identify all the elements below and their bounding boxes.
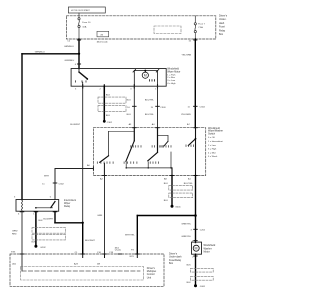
- svg-text:Fuse 10: Fuse 10: [82, 22, 91, 24]
- switch internals: column 3 (A4 high): [148, 128, 158, 161]
- svg-text:BLK: BLK: [164, 183, 169, 185]
- park switch inside motor box: [76, 69, 88, 87]
- windshield washer motor: [192, 242, 202, 254]
- relay bottom ticks + labels: [20, 211, 57, 213]
- svg-text:BLU/WHT: BLU/WHT: [85, 240, 96, 242]
- svg-text:Motor: Motor: [204, 250, 210, 253]
- svg-text:G202: G202: [40, 247, 46, 249]
- svg-text:C304: C304: [200, 107, 206, 109]
- fuse F7: [194, 16, 196, 39]
- svg-text:Driver's: Driver's: [219, 15, 228, 18]
- connector 15 tick (fuse 7 output): [194, 39, 197, 41]
- svg-text:4 = Mist: 4 = Mist: [208, 151, 216, 154]
- pin 4 tick: [77, 63, 80, 65]
- wire BLK from A8 to G401: [171, 176, 173, 206]
- fuse F10: [78, 13, 80, 39]
- bottom pin labels/ticks: [103, 175, 198, 177]
- svg-text:BLK: BLK: [106, 115, 111, 117]
- windshield wiper/washer switch box (dashed): [93, 128, 205, 176]
- svg-text:YEL/GRN: YEL/GRN: [181, 114, 191, 116]
- svg-text:Fuse 7: Fuse 7: [198, 23, 205, 25]
- svg-text:BLU/YEL: BLU/YEL: [145, 100, 155, 102]
- branch to P3: [137, 216, 195, 255]
- wire BLK motor pin2 (bold) to splice: [103, 86, 105, 121]
- svg-text:GRN/BLU: GRN/BLU: [65, 60, 75, 62]
- svg-text:RED: RED: [12, 234, 17, 236]
- svg-text:BLK: BLK: [187, 282, 192, 284]
- ground G301: [194, 284, 197, 287]
- svg-text:GRN/YEL: GRN/YEL: [181, 236, 191, 238]
- spare terminal [P] box: [97, 31, 109, 37]
- svg-text:BLU: BLU: [127, 114, 132, 116]
- spare relay (dashed): [154, 26, 181, 34]
- windshield wiper motor box: [71, 69, 166, 87]
- svg-text:BLK: BLK: [32, 242, 37, 244]
- svg-text:BLU/WHT: BLU/WHT: [70, 124, 81, 126]
- svg-text:BLK: BLK: [106, 94, 111, 96]
- wire GRN/RED relay pin6 to E35: [21, 212, 23, 254]
- svg-text:GRN/YEL: GRN/YEL: [181, 224, 191, 226]
- svg-text:G401: G401: [175, 206, 181, 208]
- relay label: [64, 199, 76, 208]
- wire BLU/WHT motor pin5 (thin): [82, 86, 84, 223]
- svg-text:0 = Off: 0 = Off: [208, 137, 215, 139]
- bottom fuse/relay box (dashed): [10, 254, 164, 286]
- wire GRN/BLU from fuse 10: [22, 39, 79, 200]
- svg-text:BLU/YEL: BLU/YEL: [184, 183, 194, 185]
- inner dashed box: [21, 267, 144, 281]
- label: Driver's Multiplex Control Unit: [147, 267, 157, 280]
- svg-text:3 = High: 3 = High: [208, 149, 217, 151]
- svg-text:BLK: BLK: [187, 265, 192, 267]
- svg-text:Relay: Relay: [219, 29, 226, 32]
- switch internals: column 2 (A3 low): [126, 128, 134, 162]
- connector C202 pin 3: [194, 228, 198, 230]
- svg-text:Fuse/: Fuse/: [219, 26, 225, 29]
- splice C302: [103, 120, 106, 123]
- wire BLU/YEL motor pin1: [157, 86, 159, 128]
- ground G401: [171, 205, 174, 208]
- svg-text:YEL/GRN: YEL/GRN: [182, 55, 192, 57]
- ground G202: [34, 245, 37, 248]
- svg-text:(Not Used): (Not Used): [97, 40, 108, 43]
- svg-text:BLK: BLK: [164, 200, 169, 202]
- svg-text:4 = High: 4 = High: [167, 83, 176, 85]
- wire YEL/GRN from fuse 7: [194, 39, 196, 128]
- svg-text:5 = Wash: 5 = Wash: [208, 156, 218, 158]
- motor M inside box: [133, 69, 159, 86]
- label: Driver's Under-dash Fuse/Relay Box (bottom right): [169, 253, 182, 265]
- svg-text:HOT IN ON OR START: HOT IN ON OR START: [71, 9, 91, 12]
- svg-text:C302: C302: [59, 183, 65, 185]
- svg-text:3 = Low: 3 = Low: [167, 80, 175, 82]
- svg-text:C302: C302: [107, 122, 113, 124]
- svg-text:Unit: Unit: [147, 276, 152, 279]
- wire BLU/YEL from A1: [195, 176, 197, 243]
- svg-text:GRN/BLU: GRN/BLU: [64, 46, 74, 48]
- wire BLU motor pin3: [133, 86, 135, 128]
- connector C304: [194, 105, 198, 107]
- internal bus: [22, 270, 140, 272]
- svg-text:C303: C303: [160, 107, 166, 109]
- relay contact: [36, 207, 53, 209]
- svg-text:GRN: GRN: [97, 215, 102, 217]
- switch internals: column 1 (intermittent contact set): [100, 132, 135, 163]
- svg-text:C202: C202: [200, 230, 206, 232]
- svg-text:M: M: [195, 247, 198, 251]
- wire WHT from A6 to relay: [55, 169, 93, 200]
- svg-text:dash: dash: [219, 22, 225, 25]
- label: Driver's Under-dash Fuse/Relay Box (top right): [219, 15, 228, 37]
- coil inside relay: [21, 201, 24, 211]
- svg-text:BLU: BLU: [127, 100, 132, 102]
- intermittent wiper relay box: [16, 200, 59, 212]
- svg-text:10A: 10A: [82, 26, 86, 29]
- switch internals: column 4 (mist): [158, 136, 169, 146]
- common bus to A8: [170, 152, 172, 168]
- stubs below ticks: [83, 254, 138, 258]
- svg-text:GRN/: GRN/: [12, 231, 18, 233]
- junction: GRN/BLU tee node: [78, 53, 80, 55]
- svg-text:WHT/YEL: WHT/YEL: [125, 235, 136, 237]
- svg-text:GRN/BLU: GRN/BLU: [35, 51, 45, 53]
- label: HOT IN ON OR START box: [68, 7, 105, 13]
- svg-text:Relay: Relay: [64, 205, 71, 208]
- A6 pin on left edge: [92, 167, 94, 170]
- E35 wire to bus: [21, 254, 23, 271]
- switch internals: washer column: [188, 128, 195, 176]
- svg-text:Used): Used): [115, 250, 121, 252]
- wire GRN from A2 to C16: [104, 176, 106, 255]
- svg-text:Switch: Switch: [208, 132, 216, 135]
- svg-text:2 = Low: 2 = Low: [208, 145, 216, 147]
- svg-text:7.5A: 7.5A: [198, 26, 203, 29]
- svg-text:Under-: Under-: [219, 18, 227, 21]
- label: Windshield Wiper Motor + legend: [167, 67, 180, 85]
- wire BLU/WHT relay pin4 to C1 (junction at x=82.7): [55, 212, 83, 254]
- inline connector (dashed) on BLK wire: [98, 97, 126, 103]
- svg-text:G301: G301: [200, 286, 206, 288]
- junction: washer feed node: [194, 214, 197, 217]
- svg-text:BLU/WHT: BLU/WHT: [43, 219, 54, 221]
- wire BLK washer motor to G301: [195, 254, 197, 285]
- connector C2 tick: [77, 39, 80, 41]
- pin ticks on top edge: [20, 253, 139, 255]
- fuse/relay box (top, dashed): [67, 16, 216, 39]
- svg-text:1 = Intermittent: 1 = Intermittent: [208, 140, 223, 143]
- svg-text:WHT: WHT: [44, 175, 50, 177]
- wire BLK relay pin1 to G202: [35, 212, 37, 246]
- label: Windshield Wiper/Washer Switch + legend: [208, 127, 223, 158]
- pin ticks below motor box: [83, 85, 158, 88]
- svg-text:Wiper Motor: Wiper Motor: [167, 70, 180, 73]
- svg-text:1 = Park: 1 = Park: [167, 73, 176, 76]
- svg-text:BLU/YEL: BLU/YEL: [145, 114, 155, 116]
- svg-text:2 = Run: 2 = Run: [167, 77, 176, 79]
- svg-text:M: M: [144, 74, 147, 78]
